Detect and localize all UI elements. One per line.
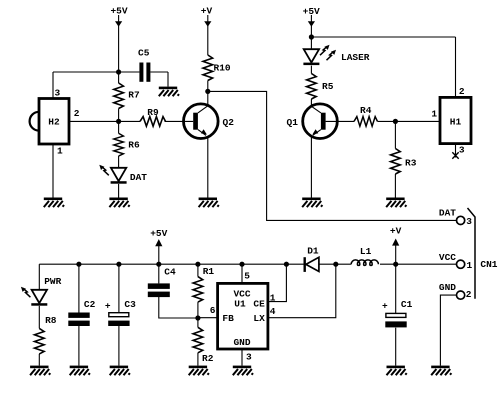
svg-text:D1: D1 <box>307 246 319 257</box>
svg-text:2: 2 <box>74 108 80 119</box>
svg-text:2: 2 <box>459 86 465 97</box>
svg-text:CE: CE <box>253 299 265 310</box>
svg-text:GND: GND <box>233 337 250 348</box>
svg-text:1: 1 <box>431 108 437 119</box>
svg-text:R6: R6 <box>128 139 140 150</box>
svg-text:+5V: +5V <box>110 6 127 17</box>
svg-text:DAT: DAT <box>439 207 456 218</box>
svg-text:R5: R5 <box>322 81 334 92</box>
svg-text:LX: LX <box>253 313 265 324</box>
svg-text:+: + <box>105 300 111 311</box>
svg-text:C1: C1 <box>401 299 413 310</box>
svg-text:+: + <box>382 301 388 312</box>
svg-text:C3: C3 <box>124 299 136 310</box>
svg-text:R1: R1 <box>203 266 215 277</box>
svg-text:Q1: Q1 <box>287 117 299 128</box>
svg-text:C5: C5 <box>138 47 150 58</box>
svg-text:R10: R10 <box>214 63 231 74</box>
svg-text:2: 2 <box>466 289 472 300</box>
svg-text:R4: R4 <box>360 105 372 116</box>
svg-text:5: 5 <box>244 271 250 282</box>
svg-text:VCC: VCC <box>439 252 456 263</box>
svg-text:3: 3 <box>466 216 472 227</box>
svg-text:CN1: CN1 <box>480 259 497 270</box>
svg-text:6: 6 <box>210 305 216 316</box>
svg-text:1: 1 <box>57 145 63 156</box>
svg-text:+5V: +5V <box>303 6 320 17</box>
svg-text:LASER: LASER <box>341 52 370 63</box>
svg-text:4: 4 <box>270 306 276 317</box>
svg-text:+5V: +5V <box>150 228 167 239</box>
svg-text:R7: R7 <box>128 89 140 100</box>
svg-text:3: 3 <box>246 352 252 363</box>
svg-text:Q2: Q2 <box>223 117 235 128</box>
svg-text:C2: C2 <box>84 299 96 310</box>
svg-text:R3: R3 <box>405 157 417 168</box>
svg-text:L1: L1 <box>360 246 372 257</box>
svg-text:PWR: PWR <box>44 276 61 287</box>
svg-text:+V: +V <box>201 6 213 17</box>
svg-text:R2: R2 <box>202 353 214 364</box>
svg-text:C4: C4 <box>164 267 176 278</box>
svg-text:1: 1 <box>467 260 473 271</box>
svg-text:FB: FB <box>222 313 234 324</box>
svg-text:U1: U1 <box>234 299 246 310</box>
svg-text:3: 3 <box>55 87 61 98</box>
svg-text:3: 3 <box>459 145 465 156</box>
svg-text:DAT: DAT <box>130 172 147 183</box>
svg-text:H1: H1 <box>450 117 462 128</box>
svg-text:H2: H2 <box>48 117 60 128</box>
svg-text:+V: +V <box>390 226 402 237</box>
svg-text:1: 1 <box>270 292 276 303</box>
svg-text:R8: R8 <box>45 315 57 326</box>
svg-text:GND: GND <box>439 282 456 293</box>
svg-text:R9: R9 <box>147 107 159 118</box>
